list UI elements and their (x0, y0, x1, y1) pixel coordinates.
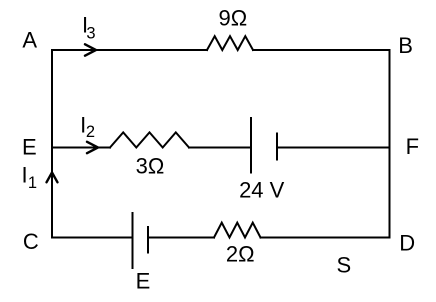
arrowhead I1 on left wire pointing up (47, 173, 58, 183)
wire: 9-ohm resistor to B (253, 49, 390, 51)
svg-text:2Ω: 2Ω (226, 242, 255, 267)
svg-text:3Ω: 3Ω (136, 154, 165, 179)
svg-text:D: D (399, 231, 415, 256)
resistor 9ohm zigzag (207, 36, 253, 50)
svg-text:A: A (22, 28, 37, 53)
svg-text:E: E (22, 135, 37, 160)
arrowhead I3 on top wire (85, 44, 96, 55)
wire: E to 3-ohm resistor (52, 147, 110, 149)
svg-text:1: 1 (28, 174, 37, 192)
resistor 3ohm zigzag (110, 132, 189, 147)
battery E short plate (147, 227, 149, 253)
svg-text:C: C (23, 229, 39, 254)
svg-text:I: I (21, 163, 27, 188)
svg-text:S: S (336, 253, 351, 278)
wire: right vertical B-F-D (389, 50, 391, 238)
svg-text:9Ω: 9Ω (219, 6, 248, 31)
resistor 2ohm zigzag (214, 223, 261, 238)
battery 24V long plate (250, 118, 252, 173)
wire: left vertical A-E-C (51, 50, 53, 238)
battery E long plate (132, 213, 134, 268)
wire: 2-ohm resistor to D (261, 237, 390, 239)
wire: battery 24V to F (277, 147, 390, 149)
wire: battery E to 2-ohm resistor (148, 237, 214, 239)
svg-text:B: B (398, 33, 413, 58)
svg-text:24 V: 24 V (239, 178, 285, 203)
wire: C to battery E (52, 237, 133, 239)
svg-text:E: E (136, 269, 151, 294)
svg-text:F: F (406, 134, 419, 159)
svg-text:2: 2 (86, 123, 95, 141)
svg-text:3: 3 (86, 25, 95, 43)
battery 24V short plate (276, 134, 278, 160)
wire: top A to 9-ohm resistor (52, 49, 207, 51)
arrowhead I2 on middle wire (87, 142, 98, 153)
wire: 3-ohm resistor to battery 24V (189, 147, 251, 149)
